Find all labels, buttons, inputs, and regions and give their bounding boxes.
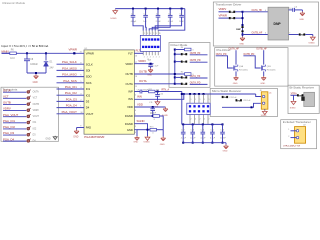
svg-text:VPWR: VPWR (219, 13, 227, 17)
svg-text:SGND: SGND (137, 119, 145, 123)
svg-text:PGA_D3: PGA_D3 (66, 97, 77, 101)
svg-text:GND: GND (160, 144, 165, 146)
svg-text:7: 7 (153, 33, 154, 35)
svg-text:2x: 2x (269, 92, 271, 94)
svg-text:D3: D3 (86, 100, 90, 104)
svg-text:0.1uF: 0.1uF (190, 138, 196, 140)
svg-text:2: 2 (204, 119, 205, 121)
svg-text:2: 2 (153, 57, 154, 59)
svg-text:SDI: SDI (86, 69, 91, 73)
svg-text:4.7uF: 4.7uF (181, 138, 187, 140)
svg-text:11: 11 (159, 33, 161, 35)
svg-text:GND: GND (299, 19, 304, 21)
svg-text:SGND: SGND (110, 18, 117, 20)
svg-text:PGA_MISO: PGA_MISO (62, 73, 77, 77)
svg-text:2.2uF: 2.2uF (156, 21, 162, 23)
svg-text:DNP: DNP (274, 22, 282, 26)
svg-text:DNP: DNP (182, 84, 187, 86)
svg-text:DGND: DGND (125, 114, 133, 118)
svg-text:OUTA: OUTA (33, 91, 40, 94)
svg-text:Bi-Static Receiver: Bi-Static Receiver (290, 86, 315, 90)
svg-text:VDD: VDD (137, 102, 143, 106)
svg-text:2: 2 (150, 57, 151, 59)
svg-text:OUTB: OUTB (3, 101, 11, 105)
svg-text:2: 2 (200, 119, 201, 121)
svg-text:2: 2 (288, 136, 289, 138)
svg-text:PGA_VOUT: PGA_VOUT (3, 113, 19, 117)
svg-text:OUTA: OUTA (126, 82, 133, 86)
svg-text:GND: GND (73, 137, 78, 139)
svg-text:PAD: PAD (86, 126, 91, 130)
svg-text:PGA_IO1: PGA_IO1 (65, 85, 77, 89)
svg-text:DNP: DNP (300, 35, 305, 37)
svg-text:PGA_SCLK: PGA_SCLK (62, 60, 77, 64)
svg-text:Driver Mode: Driver Mode (171, 43, 188, 47)
svg-text:SCLK: SCLK (86, 62, 93, 66)
svg-text:2.2uF: 2.2uF (153, 66, 159, 68)
svg-text:INN: INN (128, 97, 133, 101)
svg-text:4: 4 (265, 10, 266, 12)
svg-text:VCT: VCT (3, 94, 9, 98)
svg-text:DNP: DNP (236, 29, 241, 31)
svg-text:4.7uF: 4.7uF (200, 138, 206, 140)
svg-text:PGA_NCS: PGA_NCS (63, 79, 77, 83)
svg-text:Ultrasonic Module: Ultrasonic Module (2, 1, 26, 5)
svg-text:2: 2 (159, 57, 160, 59)
svg-text:UTR-1440K-TT-R: UTR-1440K-TT-R (283, 146, 301, 148)
svg-text:SGND: SGND (308, 43, 315, 45)
svg-text:PGA_VOUT: PGA_VOUT (62, 110, 78, 114)
svg-text:5: 5 (135, 95, 136, 97)
svg-text:6: 6 (135, 110, 136, 112)
svg-text:10.0: 10.0 (10, 58, 15, 60)
svg-text:Input: V = 5 to 20 V, I <= 50: Input: V = 5 to 20 V, I <= 50 to 500 mA (2, 44, 49, 48)
svg-text:GND: GND (46, 138, 51, 140)
svg-text:2: 2 (80, 100, 81, 102)
svg-text:1: 1 (288, 129, 289, 131)
svg-text:OUTB: OUTB (33, 104, 40, 106)
svg-text:VDRV: VDRV (125, 62, 133, 66)
svg-text:9: 9 (80, 126, 81, 128)
svg-text:440pF: 440pF (131, 21, 137, 23)
svg-text:1000uF: 1000uF (30, 64, 38, 66)
svg-text:INP: INP (128, 90, 133, 94)
svg-text:PGA_MOSI: PGA_MOSI (62, 66, 77, 70)
svg-text:1: 1 (204, 99, 205, 101)
svg-text:1: 1 (144, 33, 145, 35)
svg-text:OUTB_HF: OUTB_HF (256, 49, 267, 51)
svg-text:Q1A: Q1A (239, 65, 244, 68)
svg-text:7: 7 (80, 69, 81, 71)
svg-text:DGND: DGND (125, 122, 133, 126)
svg-text:DNP: DNP (230, 12, 235, 14)
svg-text:3: 3 (147, 33, 148, 35)
svg-text:VDD: VDD (127, 105, 133, 109)
svg-text:PGA_IO2: PGA_IO2 (65, 91, 77, 95)
svg-text:4: 4 (135, 132, 136, 134)
svg-text:VDRV: VDRV (219, 7, 227, 11)
svg-text:16: 16 (135, 56, 137, 58)
svg-text:OUTB: OUTB (125, 72, 133, 76)
svg-text:1: 1 (191, 99, 192, 101)
svg-text:PGA_D3: PGA_D3 (3, 131, 14, 135)
svg-text:5: 5 (150, 33, 151, 35)
svg-text:2: 2 (265, 103, 266, 105)
svg-text:2: 2 (191, 119, 192, 121)
svg-text:D4: D4 (86, 106, 90, 110)
svg-text:GND: GND (127, 128, 133, 132)
svg-text:1: 1 (195, 99, 196, 101)
svg-text:4.7uF: 4.7uF (210, 138, 216, 140)
svg-text:VOUT: VOUT (33, 116, 40, 118)
svg-text:GND: GND (33, 82, 38, 84)
svg-text:1: 1 (80, 106, 81, 108)
svg-text:SGND: SGND (261, 115, 267, 117)
svg-text:OUTA_HF: OUTA_HF (229, 48, 240, 51)
svg-text:4: 4 (80, 87, 81, 89)
svg-text:PGA460TDRVR: PGA460TDRVR (84, 135, 104, 139)
svg-text:3: 3 (135, 126, 136, 128)
svg-text:FLT: FLT (136, 49, 141, 53)
svg-text:GND: GND (223, 151, 228, 152)
svg-text:3: 3 (80, 93, 81, 95)
svg-text:VDRV: VDRV (33, 110, 40, 112)
svg-text:2: 2 (135, 114, 136, 116)
svg-text:2: 2 (195, 119, 196, 121)
svg-text:PGA_IO1: PGA_IO1 (3, 119, 15, 123)
svg-text:VCT: VCT (33, 98, 38, 100)
svg-text:4.7uF: 4.7uF (168, 21, 174, 23)
svg-text:5: 5 (80, 81, 81, 83)
svg-text:15: 15 (135, 86, 137, 88)
svg-text:OUTA: OUTA (139, 79, 147, 83)
svg-text:2: 2 (209, 119, 210, 121)
svg-text:VPWR: VPWR (86, 51, 94, 55)
svg-text:C19 1nF: C19 1nF (229, 97, 237, 99)
svg-text:1: 1 (209, 99, 210, 101)
svg-text:MAIN: MAIN (2, 49, 9, 53)
svg-text:DNP: DNP (223, 97, 228, 99)
svg-text:Q1B: Q1B (267, 66, 272, 68)
svg-text:9: 9 (156, 33, 157, 35)
svg-text:VDRV: VDRV (138, 59, 146, 63)
svg-text:VOUT: VOUT (86, 112, 94, 116)
svg-text:Included Transducer: Included Transducer (283, 120, 311, 124)
svg-text:C20 1nF: C20 1nF (243, 100, 251, 102)
svg-text:1: 1 (200, 99, 201, 101)
svg-text:24V: 24V (50, 68, 55, 70)
svg-text:6: 6 (265, 33, 266, 35)
svg-text:6: 6 (80, 75, 81, 77)
svg-text:IO2: IO2 (86, 93, 91, 97)
svg-text:DNP: DNP (237, 100, 242, 102)
svg-text:DNP: DNP (182, 54, 187, 56)
svg-text:GND: GND (260, 83, 265, 85)
svg-text:DNP: DNP (230, 18, 235, 20)
svg-text:Micro Static Receiver: Micro Static Receiver (212, 89, 241, 93)
svg-text:NCS: NCS (86, 81, 92, 85)
svg-text:PGA_D4: PGA_D4 (66, 104, 77, 108)
svg-text:VPWR: VPWR (69, 48, 77, 52)
svg-text:PGA_IO2: PGA_IO2 (3, 125, 15, 129)
svg-text:SGND: SGND (143, 141, 150, 143)
svg-text:DNP: DNP (182, 62, 187, 64)
svg-text:PGA_D4: PGA_D4 (3, 137, 14, 141)
svg-text:31: 31 (80, 52, 82, 54)
svg-text:FDC6420C: FDC6420C (267, 69, 277, 71)
svg-text:100nF: 100nF (220, 138, 226, 140)
svg-text:GND: GND (233, 83, 238, 85)
svg-text:1: 1 (265, 96, 266, 98)
svg-text:OUTA: OUTA (3, 88, 11, 92)
svg-text:FLT: FLT (128, 51, 133, 55)
svg-text:17: 17 (135, 62, 137, 64)
svg-text:8: 8 (80, 62, 81, 64)
svg-text:INN: INN (137, 94, 142, 98)
svg-text:OUTB: OUTB (139, 69, 147, 73)
svg-text:Transformer Driver: Transformer Driver (216, 3, 242, 7)
svg-text:2: 2 (156, 57, 157, 59)
svg-text:IO1: IO1 (86, 87, 91, 91)
svg-text:SGND: SGND (290, 108, 296, 110)
svg-text:18: 18 (135, 76, 137, 78)
svg-text:SDO: SDO (86, 75, 92, 79)
svg-text:GND: GND (147, 74, 152, 76)
svg-text:VDRV: VDRV (3, 107, 11, 111)
svg-text:GND: GND (239, 44, 244, 46)
svg-text:30: 30 (80, 112, 82, 114)
svg-text:DNP: DNP (182, 77, 187, 79)
svg-text:GND: GND (133, 141, 138, 143)
svg-text:FDC6420C: FDC6420C (239, 69, 249, 71)
